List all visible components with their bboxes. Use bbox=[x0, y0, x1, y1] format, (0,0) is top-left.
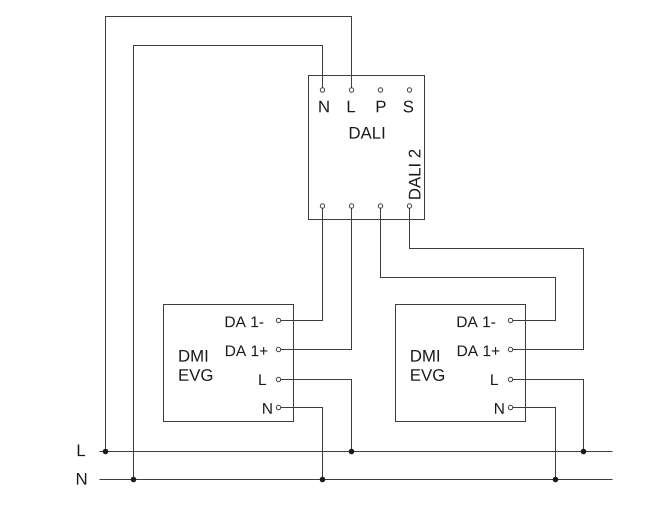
pin label S bbox=[403, 101, 413, 113]
EVG2 terminal DA 1- bbox=[508, 318, 512, 322]
EVG2 label N bbox=[495, 403, 504, 414]
EVG1 terminal DA 1- bbox=[276, 318, 280, 322]
EVG2 label DA 1- bbox=[458, 316, 496, 327]
wire right EVG L to L rail bbox=[511, 380, 584, 452]
EVG1 terminal L bbox=[276, 377, 280, 381]
wire left EVG N to N rail bbox=[279, 408, 323, 480]
N supply rail bbox=[100, 479, 613, 481]
EVG1 label L bbox=[259, 374, 266, 385]
DALI pin L terminal bbox=[349, 88, 353, 92]
rail label L bbox=[78, 445, 85, 457]
label EVG (unit 1) bbox=[179, 369, 212, 381]
wire left EVG L to L rail bbox=[279, 380, 352, 452]
DMI EVG 1 box bbox=[164, 305, 294, 422]
DALI out terminal 4 (DALI 2) bbox=[407, 204, 411, 208]
pin label L bbox=[348, 101, 355, 113]
DALI out terminal 3 bbox=[378, 204, 382, 208]
junction L rail / mains riser bbox=[103, 449, 109, 455]
junction N rail / mains riser bbox=[131, 477, 137, 483]
DALI out terminal 2 bbox=[349, 204, 353, 208]
DALI control unit U1 box bbox=[309, 76, 425, 220]
DALI pin P terminal bbox=[378, 88, 382, 92]
label EVG (unit 2) bbox=[411, 369, 444, 381]
DALI out terminal 1 bbox=[320, 204, 324, 208]
L supply rail bbox=[100, 451, 613, 453]
wire DALI out 2 to left EVG DA 1+ bbox=[279, 206, 352, 350]
DMI EVG 2 box bbox=[396, 305, 526, 422]
EVG2 label L bbox=[491, 374, 498, 385]
EVG1 label N bbox=[263, 403, 272, 414]
wire DALI out 4 to right EVG DA 1+ bbox=[410, 206, 584, 350]
EVG1 label DA 1+ bbox=[226, 345, 267, 356]
wire DALI out 1 to left EVG DA 1- bbox=[279, 206, 323, 321]
junction L rail / EVG2 L bbox=[581, 449, 587, 455]
rail label N bbox=[77, 473, 86, 485]
junction N rail / EVG2 N bbox=[553, 477, 559, 483]
EVG2 terminal L bbox=[508, 377, 512, 381]
EVG2 label DA 1+ bbox=[458, 345, 499, 356]
junction N rail / EVG1 N bbox=[320, 477, 326, 483]
label DMI (unit 2) bbox=[411, 350, 439, 362]
junction L rail / EVG1 L bbox=[349, 449, 355, 455]
wire right EVG N to N rail bbox=[511, 408, 556, 480]
pin label N bbox=[319, 101, 328, 113]
label DMI (unit 1) bbox=[179, 350, 207, 362]
DALI pin N terminal bbox=[320, 88, 324, 92]
EVG1 terminal N bbox=[276, 405, 280, 409]
label DALI bbox=[350, 127, 384, 139]
EVG2 terminal DA 1+ bbox=[508, 347, 512, 351]
wire DALI out 3 to right EVG DA 1- bbox=[381, 206, 556, 321]
wire mains-L feed (left riser, top run, drop to DALI pin L) bbox=[106, 17, 352, 452]
EVG1 terminal DA 1+ bbox=[276, 347, 280, 351]
pin label P bbox=[377, 101, 386, 113]
DALI pin S terminal bbox=[407, 88, 411, 92]
wire mains-N feed (riser, upper run, drop to DALI pin N) bbox=[134, 46, 323, 480]
label DALI 2 (rotated) bbox=[409, 150, 421, 199]
EVG2 terminal N bbox=[508, 405, 512, 409]
EVG1 label DA 1- bbox=[226, 316, 264, 327]
